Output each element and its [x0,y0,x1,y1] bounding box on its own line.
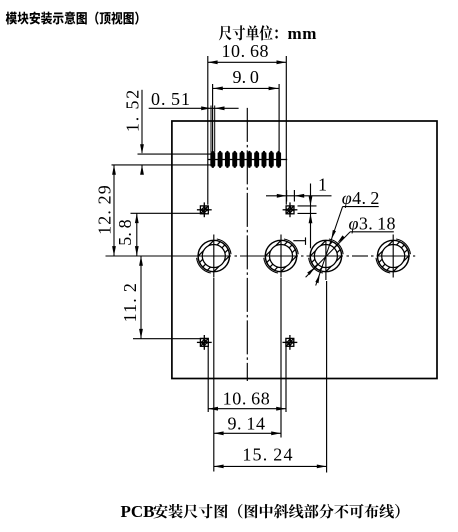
svg-text:PCB: PCB [121,502,155,521]
fiducial pad bottom-right [283,335,298,350]
dim 9.0 left arrow [213,87,223,91]
reference line near hole 3 [293,240,305,242]
dim 1 down arrow [309,196,313,206]
dim 1 bottom tick [298,212,317,214]
dim 9.0 left extension [212,84,214,152]
hole 3 vertical centerline [325,240,327,280]
reference tick near hole 3 [305,237,307,245]
hole 4 vertical centerline [392,235,394,278]
horizontal centerline dot2 [301,255,304,257]
dim 10.68 top left extension [207,56,209,205]
title: PCB mounting dimension note [153,504,399,519]
horizontal centerline dot3 [347,255,350,257]
phi 4.2 leader line (steep diagonal) [316,207,343,286]
dim 12.29 down arrow [112,246,116,256]
horizontal hole centerline seg3 [307,255,344,257]
phi 3.18 leader line (45 deg diagonal) [306,232,351,277]
dim 15.24 right arrow [317,465,327,469]
dim 1.52 up arrow [140,165,144,175]
vertical centerline dash-dot [246,108,248,381]
svg-text:11. 2: 11. 2 [120,282,140,322]
horizontal hole centerline seg1 [106,255,232,257]
svg-text:9. 0: 9. 0 [233,67,260,87]
dim 9.14 dimension line [214,432,281,434]
dim 10.68 top right extension [285,56,287,205]
dim 5.8 extension line [131,212,205,214]
dim 10.68 bottom left arrow [208,407,218,411]
mounting hole 4 [356,219,431,294]
dim 11.2 down arrow [139,329,143,339]
dim 1.52 dimension line upper [141,90,143,153]
bottom ext from hole 1 [213,278,215,472]
board edge line through pads [208,159,287,161]
dim 1 horizontal dimension line [266,195,332,197]
horizontal hole centerline seg5 [377,255,411,257]
dim 10.68 top left arrow [208,60,218,64]
phi 4.2 underline [343,206,379,208]
title: dimension unit label [219,25,278,40]
dim 10.68 bottom right arrow [276,407,286,411]
svg-text:5. 8: 5. 8 [115,219,135,246]
dim 11.2 dimension line [140,256,142,339]
phi 4.2 lower arrow [315,274,320,283]
dim 9.0 right arrow [269,87,279,91]
dim 5.8 up arrow [135,213,139,223]
dim 15.24 dimension line [214,465,327,467]
connector pad row (10 pads) [210,151,281,168]
dim 9.14 left arrow [214,431,224,435]
phi 3.18 underline [350,231,394,233]
dim 1 right tick [293,190,295,202]
dim 15.24 left arrow [214,465,224,469]
dim 0.51 right arrow [215,106,225,110]
phi 3.18 lower arrow [307,267,315,275]
PCB board outline rectangle [172,121,437,379]
dim 0.51 left arrow [201,106,211,110]
dim 11.2 up arrow [139,256,143,266]
svg-text:1: 1 [318,175,327,195]
horizontal hole centerline seg2 [240,255,298,257]
dim 1 left tick [286,190,288,202]
fiducial pad bottom-left [197,335,212,350]
svg-text:0. 51: 0. 51 [151,89,191,109]
dim 0.51 right extension [214,106,216,153]
svg-text:15. 24: 15. 24 [242,445,293,465]
dim 5.8 down arrow [135,246,139,256]
horizontal hole centerline seg4 [352,255,368,257]
svg-text:9. 14: 9. 14 [227,413,265,433]
mounting hole 2 [244,219,319,294]
svg-text:10. 68: 10. 68 [221,41,269,61]
pad bottom extension line [112,164,211,166]
dim 12.29 dimension line [113,165,115,256]
dim 11.2 extension line [133,338,204,340]
dim 0.51 leader line [149,107,239,109]
svg-text:10. 68: 10. 68 [223,389,271,409]
dim 9.0 right extension [278,84,280,152]
bottom ext from star pad br [285,347,287,413]
horizontal centerline dot1 [235,255,238,257]
title: module installation diagram (top view) [6,11,139,24]
dim 1.52 lower tail [141,165,143,173]
dim 1 left arrow [277,194,287,198]
svg-text:1. 52: 1. 52 [123,88,143,132]
mounting hole 1 (phi 4.2 / phi 3.18) [176,219,251,294]
bottom ext from star pad bl [207,347,209,413]
phi 3.18 upper arrow [337,235,345,243]
svg-text:12. 29: 12. 29 [95,184,115,235]
dim 10.68 top right arrow [277,60,287,64]
bottom ext from hole 3 [326,281,328,473]
phi 4.2 upper arrow [331,230,336,239]
dim 1 right arrow [294,194,304,198]
dim 9.0 dimension line [213,87,279,89]
svg-text:mm: mm [288,24,317,43]
hole 2 vertical centerline [280,235,282,278]
svg-text:φ4. 2: φ4. 2 [342,188,380,208]
dim 1 top tick [298,205,317,207]
horizontal centerline end [413,255,415,257]
dim 0.51 left extension [210,106,212,153]
dim 5.8 dimension line [136,213,138,256]
fiducial pad top-right [283,202,298,217]
dim 1 up arrow [309,213,313,223]
dim 10.68 top dimension line [208,61,286,63]
pad top extension line [138,153,211,155]
mounting hole 3 (dimensioned) [288,219,363,294]
dim 12.29 up arrow [112,165,116,175]
horizontal centerline dot4 [371,255,374,257]
svg-text:φ3. 18: φ3. 18 [348,214,395,234]
dim 1 vertical dimension line [310,184,312,249]
dim 9.14 right arrow [271,431,281,435]
fiducial pad top-left [197,202,212,217]
dim 1.52 down arrow [140,144,144,154]
bottom ext from hole 2 [280,278,282,438]
dim 10.68 bottom dimension line [208,408,286,410]
hole 1 vertical centerline [213,235,215,278]
